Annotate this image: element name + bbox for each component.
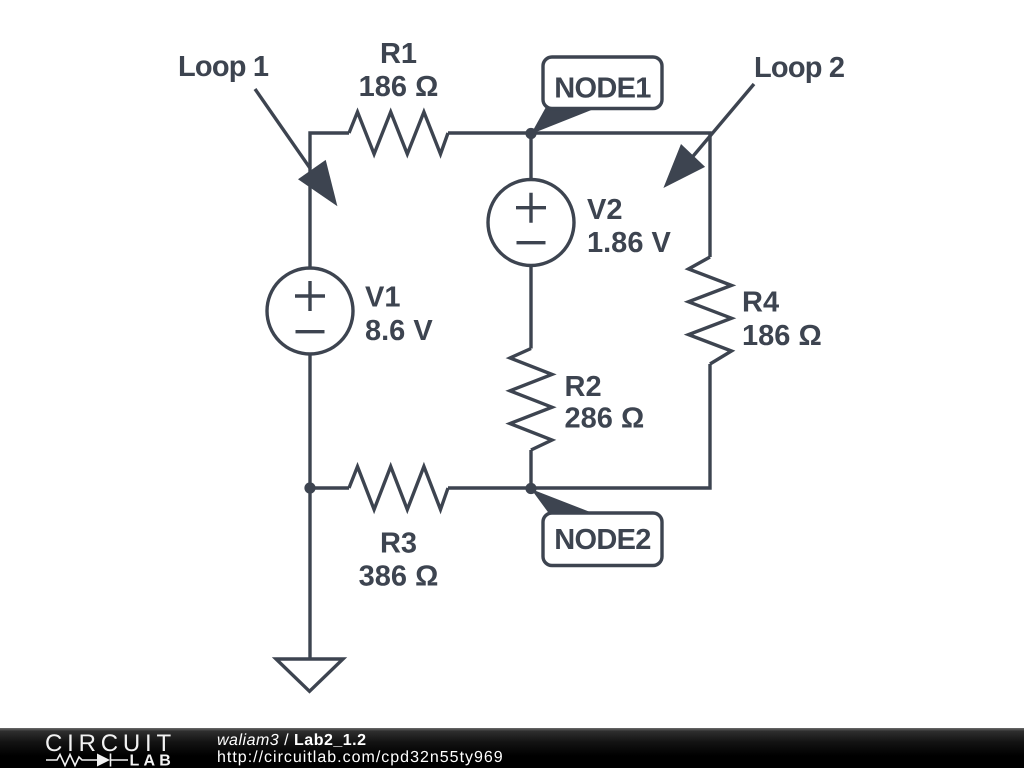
loop 1 pointer line <box>255 89 310 169</box>
junction dot NODE1 <box>525 128 536 139</box>
V1 minus sign <box>296 330 325 333</box>
loop 2 arrowhead <box>663 144 705 188</box>
resistor R3 <box>349 467 448 510</box>
svg-text:186 Ω: 186 Ω <box>742 320 822 352</box>
svg-text:Loop 1: Loop 1 <box>178 51 269 83</box>
svg-text:waliam3 / Lab2_1.2: waliam3 / Lab2_1.2 <box>217 732 367 749</box>
svg-text:http://circuitlab.com/cpd32n55: http://circuitlab.com/cpd32n55ty969 <box>217 749 504 766</box>
ground symbol <box>276 659 343 691</box>
voltage source V1 <box>267 268 353 354</box>
V2 minus sign <box>517 241 546 244</box>
wire left rail lower <box>308 354 311 488</box>
wire V2 to R2 <box>529 265 532 349</box>
svg-text:R2: R2 <box>565 371 602 403</box>
junction dot bottom-left <box>304 482 315 493</box>
wire left rail top + top-left corner <box>310 133 349 268</box>
resistor R2 <box>510 349 552 451</box>
node NODE1 callout tail <box>531 107 599 134</box>
wire right rail lower + bottom-right corner <box>448 364 710 488</box>
resistor R1 <box>349 112 448 154</box>
footer bar <box>0 728 1024 768</box>
svg-text:386 Ω: 386 Ω <box>359 561 439 593</box>
svg-text:8.6 V: 8.6 V <box>365 315 433 347</box>
svg-text:R4: R4 <box>742 287 779 319</box>
wire R2 to node2 <box>529 450 532 488</box>
svg-text:186 Ω: 186 Ω <box>359 71 439 103</box>
wire node1 stub <box>529 133 532 180</box>
wire bottom-left segment <box>310 486 349 489</box>
svg-text:R1: R1 <box>380 38 417 70</box>
svg-text:Loop 2: Loop 2 <box>754 52 844 84</box>
resistor R4 <box>689 257 732 364</box>
ground stem wire <box>308 488 311 658</box>
node NODE2 callout box <box>543 513 662 566</box>
logo resistor-diode art <box>46 754 128 767</box>
svg-text:NODE2: NODE2 <box>554 524 650 556</box>
svg-text:LAB: LAB <box>130 753 175 768</box>
svg-text:V1: V1 <box>365 282 400 314</box>
node NODE1 callout box <box>543 57 662 109</box>
V1 plus sign <box>295 281 325 311</box>
node NODE2 callout tail <box>531 489 594 514</box>
svg-text:1.86 V: 1.86 V <box>587 227 671 259</box>
svg-text:R3: R3 <box>380 528 417 560</box>
V2 plus sign <box>516 193 546 223</box>
svg-text:NODE1: NODE1 <box>554 73 651 105</box>
loop 1 arrowhead <box>298 160 337 206</box>
voltage source V2 <box>488 180 574 266</box>
junction dot NODE2 <box>525 483 536 494</box>
svg-text:286 Ω: 286 Ω <box>565 403 645 435</box>
wire top rail to top-right corner down to R4 <box>448 133 710 257</box>
loop 2 pointer line <box>689 84 754 161</box>
svg-text:V2: V2 <box>587 194 622 226</box>
